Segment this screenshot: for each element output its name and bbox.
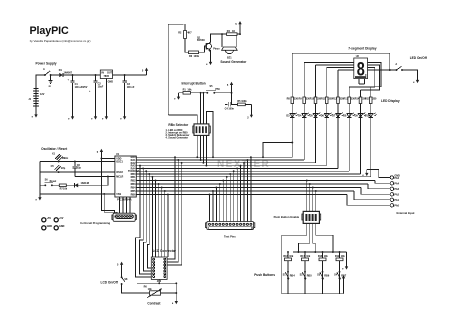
wire emitter xyxy=(210,50,212,58)
capacitor C1 100uF/25V xyxy=(68,75,88,113)
LCD bottom wire xyxy=(137,279,177,283)
diode D1 1N4007 xyxy=(51,69,73,77)
corner wire net RB7 jog xyxy=(263,143,292,158)
svg-text:Oscillator / Reset: Oscillator / Reset xyxy=(41,147,68,151)
capacitor C3 100nF xyxy=(122,75,135,113)
transistor Q1 BC548 xyxy=(197,36,212,52)
svg-text:R18: R18 xyxy=(318,255,323,258)
svg-text:Sound Generator: Sound Generator xyxy=(220,60,247,64)
svg-text:+5V: +5V xyxy=(59,217,64,220)
ground under C3 xyxy=(120,113,126,120)
svg-text:4. Sound Generator: 4. Sound Generator xyxy=(166,137,189,140)
pin labels right column xyxy=(131,156,137,196)
button column 4: resistor R19 + switch S4 xyxy=(334,251,347,294)
svg-text:10k: 10k xyxy=(289,255,294,258)
svg-text:RB6: RB6 xyxy=(131,194,137,197)
left vertical osc xyxy=(39,162,41,194)
svg-text:330: 330 xyxy=(372,98,377,101)
svg-text:IN: IN xyxy=(101,71,104,74)
svg-text:A: A xyxy=(43,68,45,71)
svg-text:RB6: RB6 xyxy=(324,274,330,277)
svg-text:RA4: RA4 xyxy=(131,167,137,170)
switch S1 power xyxy=(43,68,53,88)
svg-text:PA1: PA1 xyxy=(394,199,399,202)
+5V arrow chip VDD xyxy=(97,149,103,156)
IC U1 PIC16F84A xyxy=(115,153,141,202)
DIP switch SW1 xyxy=(302,211,321,223)
banana jack B4 xyxy=(54,225,65,230)
node collector-buzzer xyxy=(221,33,223,35)
svg-text:4K7: 4K7 xyxy=(187,32,192,35)
ground under C2 xyxy=(91,113,97,120)
wire VSS to ICP xyxy=(104,194,117,213)
switch S7 LED on/off xyxy=(395,63,417,77)
button column 2: resistor R17 + switch S2 xyxy=(300,251,313,294)
svg-text:7805: 7805 xyxy=(104,75,110,78)
svg-text:10k: 10k xyxy=(148,288,153,291)
svg-text:PA0: PA0 xyxy=(394,204,399,207)
wire common to switch xyxy=(371,69,397,71)
ground push buttons xyxy=(342,263,348,270)
capacitor C4 debouncer xyxy=(225,102,235,110)
node R4 right xyxy=(239,33,241,35)
MCLR line xyxy=(75,176,115,178)
svg-text:R19: R19 xyxy=(335,255,340,258)
capacitor C2 with zener xyxy=(89,75,104,113)
test pin drop wires xyxy=(210,157,251,221)
svg-text:22p: 22p xyxy=(61,167,66,170)
svg-text:10k: 10k xyxy=(341,255,346,258)
svg-text:R11: R11 xyxy=(321,98,326,101)
regulator U5 7805 xyxy=(100,70,113,113)
svg-text:Push Buttons: Push Buttons xyxy=(254,273,275,277)
svg-text:PA4: PA4 xyxy=(394,182,399,185)
svg-text:R16: R16 xyxy=(283,255,288,258)
terminal PA4 xyxy=(390,174,400,179)
svg-text:Power Supply: Power Supply xyxy=(36,62,57,66)
ground led on/off xyxy=(413,77,419,84)
in-circuit programming wires from chip xyxy=(120,197,131,213)
svg-text:10k: 10k xyxy=(63,188,68,191)
svg-text:1K: 1K xyxy=(232,30,235,33)
svg-text:RBx Selector: RBx Selector xyxy=(168,123,189,127)
wire VDD and down to ICP xyxy=(101,156,115,213)
terminal PA1 xyxy=(390,193,399,197)
svg-text:100k: 100k xyxy=(194,55,200,58)
banana jack B3 xyxy=(42,225,53,230)
svg-text:100 nF: 100 nF xyxy=(127,86,135,89)
svg-text:LED Display: LED Display xyxy=(381,99,400,103)
resistor R1 10k xyxy=(179,89,208,95)
ground under C1 xyxy=(68,113,74,120)
nest wires left pins xyxy=(304,63,350,71)
svg-text:22p: 22p xyxy=(77,167,82,170)
jumper JP1 RBx selector block xyxy=(193,124,210,135)
terminal PA0b xyxy=(390,204,399,208)
svg-text:R10: R10 xyxy=(310,98,315,101)
ground interrupt xyxy=(174,93,180,100)
+5V arrow push buttons xyxy=(339,275,345,282)
+5V arrow LCD xyxy=(117,262,123,269)
crystal X1 xyxy=(52,152,69,161)
wire to +5 xyxy=(214,92,231,94)
ground contrast xyxy=(172,298,178,305)
svg-text:7-segment Display: 7-segment Display xyxy=(348,47,376,51)
wire debouncer feed xyxy=(225,93,237,105)
svg-text:OUT: OUT xyxy=(107,71,113,74)
svg-text:GND: GND xyxy=(108,80,114,83)
terminal PA3 xyxy=(390,182,399,186)
capacitor C6 on MCLR branch xyxy=(73,162,82,177)
svg-text:RB1: RB1 xyxy=(131,176,137,179)
potentiometer R6 contrast xyxy=(144,286,177,298)
svg-text:Test Pins: Test Pins xyxy=(224,234,236,238)
svg-text:4MHz: 4MHz xyxy=(62,157,69,160)
banana jack B2 xyxy=(54,217,64,222)
ground external input xyxy=(362,170,390,178)
svg-text:P50: P50 xyxy=(215,88,220,91)
svg-text:GND: GND xyxy=(59,225,65,228)
wire contrast to ground xyxy=(175,283,177,297)
svg-text:LCD Connector: LCD Connector xyxy=(153,249,177,253)
svg-text:A: A xyxy=(395,63,397,66)
osc rail 1 xyxy=(40,161,115,163)
switch S8 LCD on/off xyxy=(121,269,145,293)
resistor R3 100k horizontal xyxy=(185,46,206,58)
button column 3: resistor R18 + switch S3 xyxy=(317,251,330,294)
nest wire common top xyxy=(292,53,390,70)
resistor R2 4K7 vertical xyxy=(178,24,192,52)
svg-text:D10: D10 xyxy=(365,114,370,117)
svg-text:BC548: BC548 xyxy=(197,39,205,42)
7-segment display U2 xyxy=(351,55,371,80)
nest wires right pins xyxy=(349,63,381,91)
svg-text:In-Circuit Programming: In-Circuit Programming xyxy=(80,221,110,225)
svg-text:R12: R12 xyxy=(332,98,337,101)
DIP out fan wires xyxy=(282,223,333,293)
svg-text:External Input: External Input xyxy=(397,211,415,215)
display bottom stubs xyxy=(359,79,365,84)
wire collector xyxy=(211,34,223,42)
DIP feed wires xyxy=(307,181,316,212)
connector J3 test pins xyxy=(206,222,255,230)
diode D2 1N4148 xyxy=(75,177,108,188)
terminal PA2 xyxy=(390,187,399,191)
svg-text:R13: R13 xyxy=(344,98,349,101)
banana jack B1 xyxy=(42,217,52,222)
terminal PA0 xyxy=(390,198,399,202)
connector J4 LCD xyxy=(151,257,167,283)
buzzer BZ1 piezo xyxy=(213,34,237,60)
svg-text:10k: 10k xyxy=(187,89,192,92)
bottom rail VSS xyxy=(40,193,115,195)
LED column 3 xyxy=(310,65,322,163)
ground under regulator xyxy=(102,113,108,120)
svg-text:RB4: RB4 xyxy=(290,274,296,277)
LED column 8 xyxy=(365,87,377,177)
osc rail 2 xyxy=(40,171,115,173)
+5V arrow interrupt xyxy=(227,82,233,89)
svg-text:MCLR: MCLR xyxy=(116,175,123,178)
svg-text:1N4007: 1N4007 xyxy=(64,71,73,74)
svg-text:RB7: RB7 xyxy=(341,274,347,277)
svg-text:10uF: 10uF xyxy=(98,85,104,88)
svg-text:12V: 12V xyxy=(40,93,45,96)
svg-text:Push Button Enable: Push Button Enable xyxy=(274,215,300,219)
capacitor C5 22p diagonal xyxy=(51,165,66,171)
external input jogs xyxy=(347,181,390,206)
LED column 2 xyxy=(298,63,310,161)
reset row: button S6 xyxy=(40,178,59,186)
button column 1: resistor R16 + switch S1 xyxy=(283,251,296,294)
LED column 1 xyxy=(286,53,298,157)
wires jumper to bus xyxy=(197,135,206,165)
ground under jack xyxy=(32,111,38,118)
svg-text:by Vassilis Papanikolaou (info: by Vassilis Papanikolaou (info@xxxxxxxx.… xyxy=(30,39,91,43)
svg-text:Contrast: Contrast xyxy=(147,302,161,306)
svg-text:100 uF/25V: 100 uF/25V xyxy=(75,86,88,89)
svg-text:GND: GND xyxy=(47,225,53,228)
push button rail top xyxy=(293,252,347,263)
svg-text:R17: R17 xyxy=(300,255,305,258)
svg-text:RB5: RB5 xyxy=(307,274,313,277)
svg-text:PlayPIC: PlayPIC xyxy=(30,25,69,37)
svg-text:OSC1: OSC1 xyxy=(116,160,123,163)
svg-text:1N4148: 1N4148 xyxy=(81,182,90,185)
svg-text:100k: 100k xyxy=(241,100,247,103)
LCD right nest wires xyxy=(167,157,182,265)
ground under Q1 xyxy=(206,59,212,66)
svg-text:Reset: Reset xyxy=(50,180,57,183)
net arrow down debouncer out xyxy=(247,104,253,119)
svg-text:+5V: +5V xyxy=(47,217,52,220)
bus lines RB0-RB7 to LED columns xyxy=(136,157,370,177)
LED column 5 xyxy=(332,70,344,168)
push button S5 interrupt xyxy=(206,85,220,94)
connector J2 ICP xyxy=(112,213,136,221)
svg-text:PA3: PA3 xyxy=(394,188,399,191)
LED column 4 xyxy=(321,68,333,166)
svg-text:R14: R14 xyxy=(355,98,360,101)
svg-text:LED On/Off: LED On/Off xyxy=(410,56,428,60)
LED column 6 xyxy=(343,87,355,171)
wire long left net xyxy=(168,24,183,115)
svg-text:OSC2: OSC2 xyxy=(116,171,123,174)
resistor R4 1K xyxy=(222,30,240,36)
LED column 7 xyxy=(355,90,367,174)
svg-text:100n: 100n xyxy=(228,108,234,111)
power rail xyxy=(73,74,147,76)
svg-text:PA4: PA4 xyxy=(394,177,399,180)
svg-text:10k: 10k xyxy=(324,255,329,258)
wires into jumper top xyxy=(168,93,213,157)
svg-text:10k: 10k xyxy=(306,255,311,258)
svg-text:PA2: PA2 xyxy=(394,193,399,196)
svg-text:LCD On/Off: LCD On/Off xyxy=(101,280,119,284)
svg-text:R15: R15 xyxy=(365,98,370,101)
+5V arrow power out xyxy=(142,68,148,75)
bus lines RA to external xyxy=(136,181,375,195)
svg-text:Interrupt Button: Interrupt Button xyxy=(182,81,206,85)
svg-text:Piezo: Piezo xyxy=(213,48,220,51)
svg-text:VSS: VSS xyxy=(116,193,121,196)
ground osc xyxy=(36,194,42,201)
selector list xyxy=(166,129,190,140)
+5V arrow sound xyxy=(235,21,241,28)
resistor R7 reset xyxy=(59,184,74,191)
resistor R5 100k xyxy=(237,100,251,106)
push button rail bottom xyxy=(282,283,344,294)
LCD drop wires from bus xyxy=(136,166,153,277)
connector J1 power jack xyxy=(28,75,45,111)
